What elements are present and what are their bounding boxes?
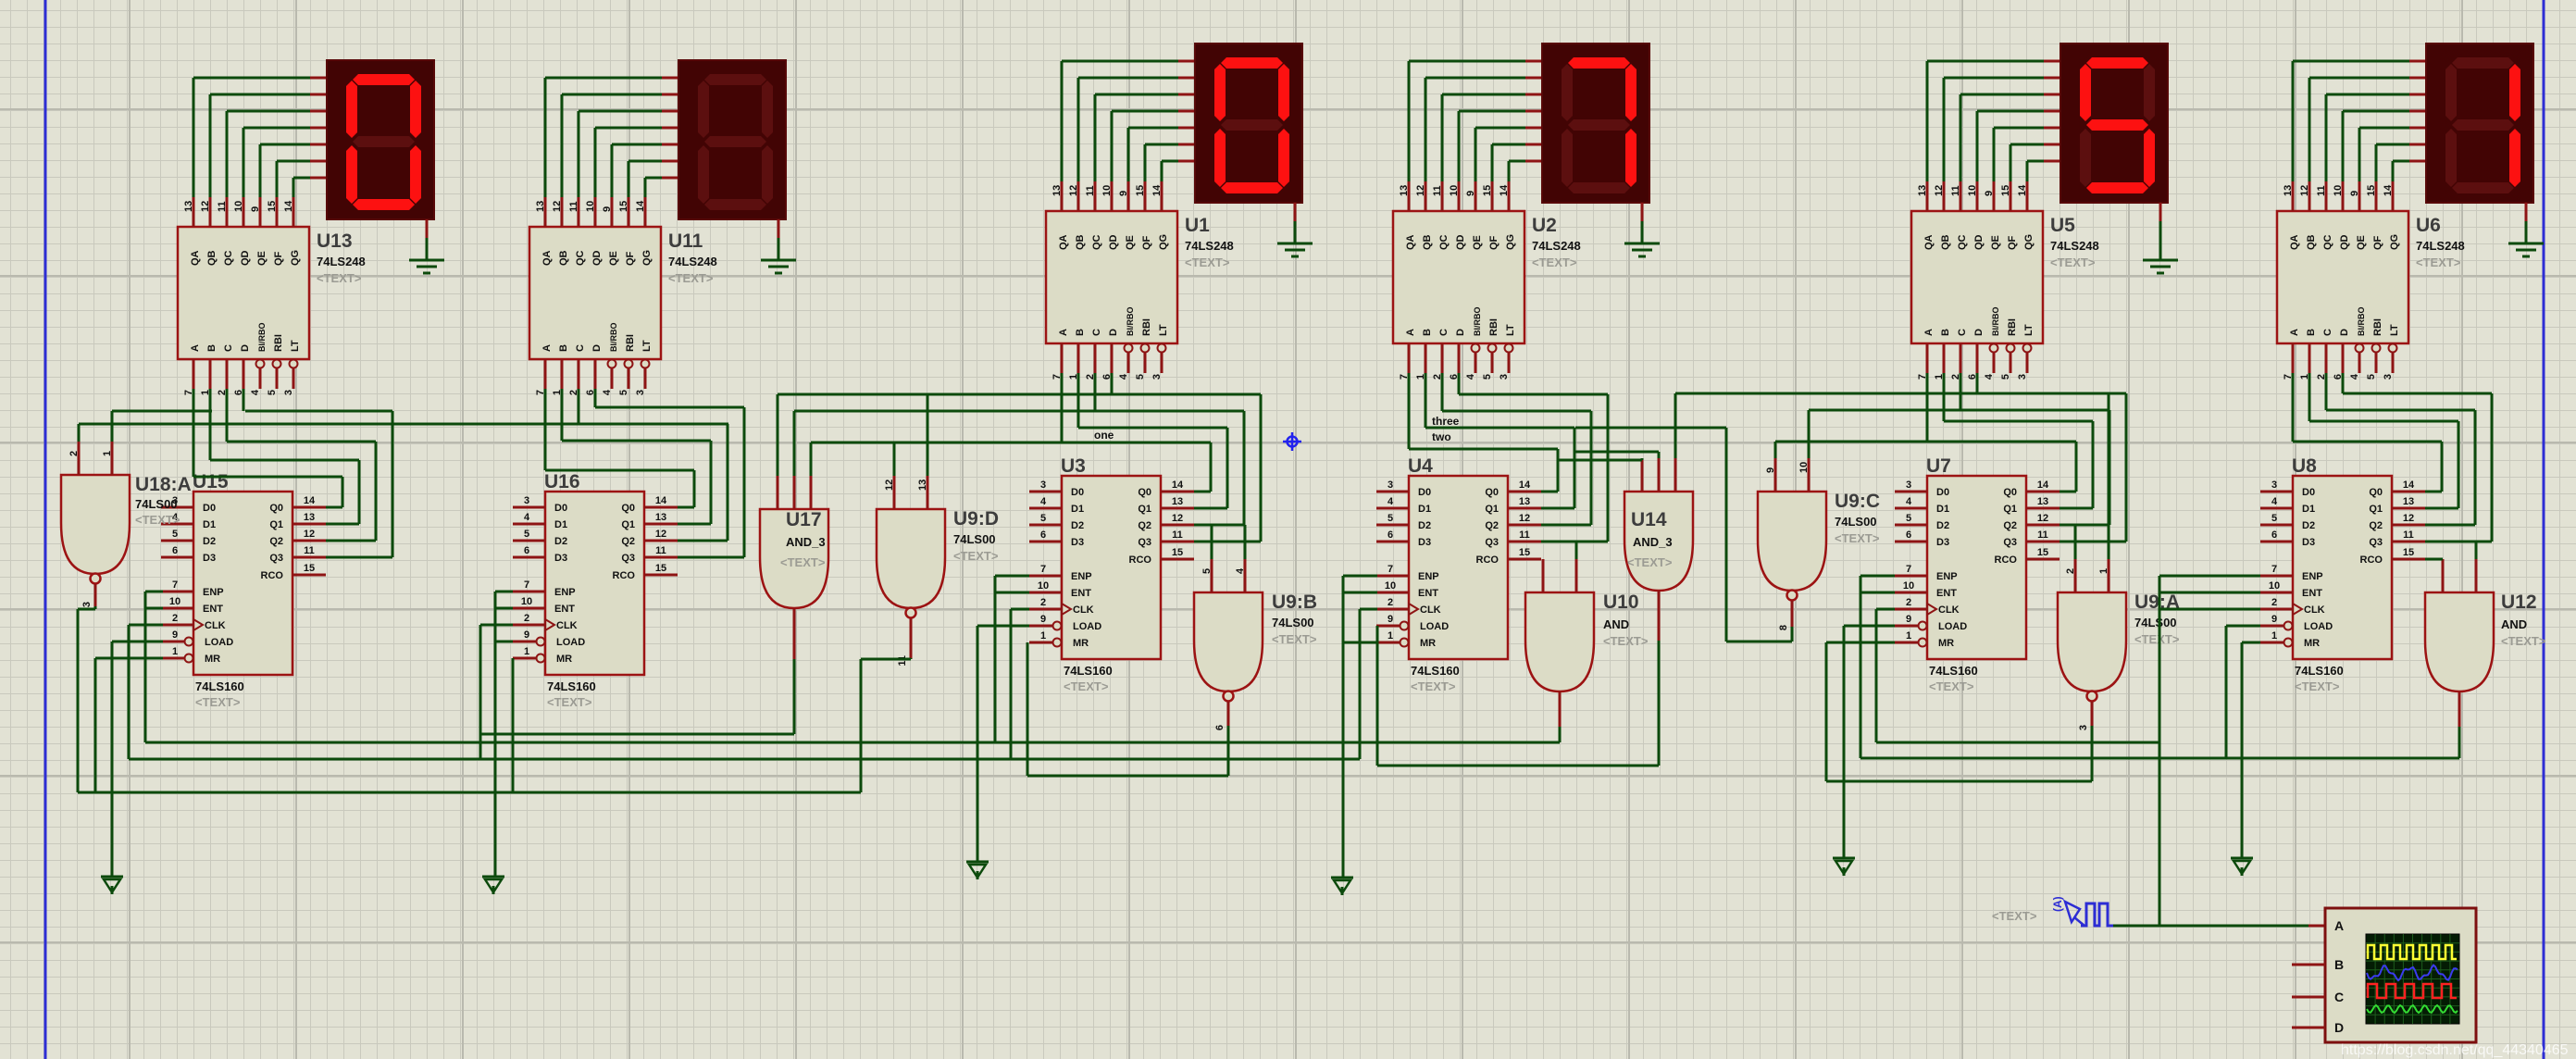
svg-text:D: D (2339, 329, 2350, 336)
svg-text:6: 6 (2271, 529, 2277, 541)
svg-text:D3: D3 (554, 553, 567, 564)
svg-text:7: 7 (1388, 564, 1393, 575)
svg-text:AND_3: AND_3 (786, 535, 826, 549)
wire MR column E to U9:A output (1826, 642, 2092, 781)
svg-text:7: 7 (2271, 564, 2277, 575)
svg-text:A: A (2334, 918, 2344, 933)
svg-text:QB: QB (2306, 234, 2317, 250)
svg-text:3: 3 (2017, 374, 2028, 380)
svg-text:MR: MR (2304, 638, 2320, 649)
7-segment display DISP-U5 (2060, 44, 2168, 203)
bus 802 west (ENP/ENT) (145, 741, 1560, 744)
svg-text:QA: QA (541, 250, 553, 266)
U9:A output pin 3 (2078, 702, 2092, 730)
wire MR column C to U9:B output (1027, 642, 1228, 776)
svg-text:C: C (1091, 329, 1102, 336)
svg-text:ENP: ENP (554, 587, 576, 598)
svg-text:2: 2 (1906, 597, 1911, 608)
svg-text:2: 2 (2065, 568, 2076, 574)
svg-text:QG: QG (2023, 234, 2035, 250)
svg-text:1: 1 (102, 451, 113, 456)
ground arrow (1331, 878, 1353, 895)
svg-text:<TEXT>: <TEXT> (1064, 679, 1109, 693)
svg-text:14: 14 (2403, 480, 2415, 491)
svg-text:RBI: RBI (2372, 318, 2383, 336)
svg-text:10: 10 (1798, 462, 1810, 473)
svg-text:QA: QA (1923, 234, 1935, 250)
bus 802 east (1876, 741, 2159, 744)
svg-text:D3: D3 (2302, 537, 2315, 548)
svg-text:13: 13 (535, 201, 546, 212)
wire U14 input links (1559, 393, 1675, 460)
svg-text:U7: U7 (1926, 455, 1951, 477)
svg-text:https://blog.csdn.net/qq_44340: https://blog.csdn.net/qq_44340465 (2341, 1042, 2569, 1058)
svg-text:D0: D0 (1936, 487, 1949, 498)
svg-text:CLK: CLK (205, 620, 226, 631)
svg-text:QD: QD (240, 250, 251, 266)
svg-text:5: 5 (1482, 374, 1493, 380)
wire LOAD column C to arrow (977, 626, 1029, 862)
svg-text:U15: U15 (193, 471, 229, 492)
svg-text:2: 2 (172, 613, 178, 624)
svg-text:12: 12 (200, 201, 211, 212)
svg-text:1: 1 (1906, 630, 1911, 642)
svg-text:13: 13 (1172, 496, 1183, 507)
svg-text:D3: D3 (1071, 537, 1084, 548)
svg-text:U8: U8 (2292, 455, 2317, 477)
svg-text:<TEXT>: <TEXT> (953, 549, 999, 563)
wire ENP/ENT column E (1860, 576, 1895, 758)
ground (761, 219, 796, 273)
svg-text:74LS00: 74LS00 (2134, 616, 2177, 629)
svg-text:C: C (2322, 329, 2333, 336)
svg-text:QD: QD (591, 250, 603, 266)
svg-text:B: B (2334, 957, 2344, 972)
wire U18:A input links (79, 411, 728, 442)
gate U18:A (NAND) (61, 442, 192, 584)
svg-text:QB: QB (1075, 234, 1086, 250)
svg-text:74LS160: 74LS160 (1411, 664, 1460, 678)
svg-text:ENP: ENP (203, 587, 224, 598)
svg-text:Q2: Q2 (621, 536, 635, 547)
7-segment display DISP-U1 (1195, 44, 1302, 203)
74LS160 counter U16 (513, 471, 678, 709)
svg-text:BI/RBO: BI/RBO (257, 323, 267, 353)
svg-text:74LS248: 74LS248 (2050, 239, 2099, 253)
svg-text:QD: QD (1455, 234, 1466, 250)
7-segment display DISP-U13 (327, 60, 434, 219)
ground arrow (482, 877, 504, 894)
svg-text:QA: QA (1058, 234, 1069, 250)
svg-text:D3: D3 (1936, 537, 1949, 548)
gate U12 (AND) (2425, 559, 2546, 691)
svg-text:BI/RBO: BI/RBO (1991, 307, 2000, 337)
svg-text:QE: QE (2356, 235, 2367, 250)
wire U10 output to bus (1559, 727, 1562, 742)
svg-text:LOAD: LOAD (1938, 621, 1967, 632)
wire U9:D input links (894, 394, 927, 476)
svg-text:15: 15 (304, 563, 315, 574)
svg-text:74LS248: 74LS248 (2416, 239, 2465, 253)
svg-text:RBI: RBI (625, 334, 636, 352)
svg-text:U6: U6 (2416, 215, 2441, 236)
gate U9:C (NAND) (1758, 458, 1880, 601)
svg-text:Q2: Q2 (1138, 520, 1151, 531)
svg-text:Q2: Q2 (1485, 520, 1499, 531)
svg-text:RCO: RCO (613, 570, 636, 581)
svg-text:AND: AND (1603, 617, 1629, 631)
svg-text:11: 11 (2403, 529, 2414, 541)
svg-text:12: 12 (1415, 185, 1426, 196)
svg-text:<TEXT>: <TEXT> (1627, 555, 1673, 569)
svg-text:AND: AND (2501, 617, 2527, 631)
svg-text:MR: MR (1420, 638, 1436, 649)
svg-text:D: D (240, 344, 251, 352)
svg-text:Q1: Q1 (1138, 504, 1151, 515)
svg-text:3: 3 (1388, 480, 1393, 491)
svg-text:5: 5 (172, 529, 178, 540)
svg-text:RBI: RBI (1141, 318, 1152, 336)
svg-text:D1: D1 (2302, 504, 2315, 515)
7-segment display DISP-U6 (2426, 44, 2533, 203)
svg-text:B: B (206, 344, 218, 352)
svg-text:74LS00: 74LS00 (135, 497, 178, 511)
svg-text:13: 13 (2037, 496, 2048, 507)
svg-text:BI/RBO: BI/RBO (1126, 307, 1135, 337)
svg-text:15: 15 (267, 201, 278, 212)
U9:B output pin 6 (1214, 702, 1228, 730)
svg-text:74LS00: 74LS00 (1835, 515, 1877, 529)
svg-text:Q3: Q3 (2003, 537, 2017, 548)
svg-text:QC: QC (223, 250, 234, 266)
svg-text:7: 7 (524, 579, 529, 591)
svg-text:U17: U17 (786, 509, 822, 530)
svg-text:8: 8 (1778, 625, 1789, 630)
wires U13 A-D to U15 Q0-Q3 loops (193, 389, 392, 557)
svg-text:9: 9 (1388, 614, 1393, 625)
svg-text:D2: D2 (2302, 520, 2315, 531)
wire LOAD column D to U14 output (1377, 626, 1659, 766)
svg-text:ENT: ENT (1936, 588, 1957, 599)
ground (409, 219, 444, 273)
svg-text:D2: D2 (203, 536, 216, 547)
svg-text:QF: QF (2372, 235, 2383, 250)
svg-text:4: 4 (1388, 496, 1394, 507)
svg-text:3: 3 (2078, 725, 2089, 730)
svg-text:12: 12 (2037, 513, 2048, 524)
U18:A output pin 3 (81, 584, 95, 607)
svg-text:2: 2 (1040, 597, 1046, 608)
svg-text:<TEXT>: <TEXT> (1603, 634, 1649, 648)
svg-text:7: 7 (172, 579, 178, 591)
svg-text:12: 12 (884, 480, 895, 491)
wires U6 A-D to U8 Q0-Q3 loops (2293, 373, 2492, 542)
svg-text:QA: QA (2289, 234, 2300, 250)
svg-text:QF: QF (1141, 235, 1152, 250)
svg-text:14: 14 (2017, 184, 2028, 196)
svg-text:BI/RBO: BI/RBO (609, 323, 618, 353)
svg-text:4: 4 (1906, 496, 1912, 507)
svg-text:15: 15 (2403, 547, 2414, 558)
svg-text:10: 10 (521, 596, 532, 607)
svg-text:4: 4 (1235, 567, 1246, 574)
svg-text:74LS160: 74LS160 (1064, 664, 1113, 678)
wire U9:B input links (1212, 525, 1245, 559)
svg-text:Q3: Q3 (1485, 537, 1499, 548)
svg-text:3: 3 (1040, 480, 1046, 491)
svg-text:LT: LT (1505, 324, 1516, 336)
svg-text:14: 14 (1151, 184, 1163, 196)
svg-text:<TEXT>: <TEXT> (1929, 679, 1974, 693)
wire U9:D output routing (861, 658, 911, 792)
svg-text:CLK: CLK (556, 620, 578, 631)
74LS248 decoder U11 (529, 197, 717, 395)
svg-text:ENT: ENT (1071, 588, 1091, 599)
7-segment display DISP-U11 (678, 60, 786, 219)
wire CLK column A (129, 625, 163, 759)
U9:C output pin 8 (1778, 601, 1792, 630)
origin marker (1283, 432, 1301, 451)
svg-text:15: 15 (2037, 547, 2048, 558)
74LS160 counter U15 (161, 471, 326, 709)
svg-text:9: 9 (524, 629, 529, 641)
svg-text:5: 5 (2271, 513, 2277, 524)
svg-text:LOAD: LOAD (205, 637, 233, 648)
svg-text:QC: QC (1438, 234, 1450, 250)
svg-text:12: 12 (552, 201, 563, 212)
svg-text:15: 15 (1519, 547, 1530, 558)
svg-text:A: A (190, 344, 201, 352)
svg-text:U11: U11 (668, 230, 703, 252)
svg-text:12: 12 (1172, 513, 1183, 524)
wire CLK column B (480, 625, 513, 759)
svg-text:QF: QF (625, 251, 636, 266)
gate U10 (AND) (1525, 559, 1649, 691)
svg-text:9: 9 (172, 629, 178, 641)
svg-text:C: C (1957, 329, 1968, 336)
svg-text:ENP: ENP (2302, 571, 2323, 582)
svg-text:3: 3 (1499, 374, 1510, 380)
svg-text:11: 11 (1172, 529, 1183, 541)
wires 248 U11 to display (545, 78, 678, 197)
svg-text:LOAD: LOAD (1073, 621, 1101, 632)
wire CLK column E (1876, 609, 1895, 742)
74LS160 counter U3 (1029, 455, 1194, 693)
svg-text:QB: QB (558, 250, 569, 266)
svg-text:1: 1 (524, 646, 529, 657)
svg-text:4: 4 (1118, 373, 1129, 380)
svg-text:<TEXT>: <TEXT> (2295, 679, 2340, 693)
svg-text:10: 10 (1903, 580, 1914, 592)
svg-text:14: 14 (2037, 480, 2049, 491)
ground (2508, 203, 2544, 256)
svg-text:4: 4 (602, 389, 613, 395)
U14 output pin (1658, 591, 1661, 641)
svg-text:QE: QE (1990, 235, 2001, 250)
svg-text:Q0: Q0 (2003, 487, 2017, 498)
svg-text:RBI: RBI (1488, 318, 1500, 336)
svg-text:RCO: RCO (1476, 554, 1500, 566)
svg-text:13: 13 (183, 201, 194, 212)
svg-text:15: 15 (2000, 185, 2011, 196)
wire U9:C output to three-net (1575, 428, 1792, 642)
svg-text:ENT: ENT (554, 604, 575, 615)
svg-text:14: 14 (1519, 480, 1531, 491)
svg-text:9: 9 (1906, 614, 1911, 625)
svg-text:QD: QD (1108, 234, 1119, 250)
svg-text:74LS160: 74LS160 (195, 679, 244, 693)
svg-text:5: 5 (618, 390, 629, 395)
svg-text:14: 14 (283, 200, 294, 212)
U17 output pin (793, 608, 796, 659)
wires U1 A-D to U3 Q0-Q3 loops (811, 373, 1261, 542)
svg-text:RBI: RBI (2007, 318, 2018, 336)
svg-text:5: 5 (2000, 374, 2011, 380)
svg-text:U10: U10 (1603, 592, 1639, 613)
svg-text:D0: D0 (554, 503, 567, 514)
svg-text:CLK: CLK (1420, 604, 1441, 616)
svg-text:13: 13 (304, 512, 315, 523)
svg-text:ENP: ENP (1418, 571, 1439, 582)
svg-text:QB: QB (1422, 234, 1433, 250)
svg-text:Q1: Q1 (2369, 504, 2383, 515)
svg-text:ENP: ENP (1071, 571, 1092, 582)
svg-text:Q0: Q0 (269, 503, 283, 514)
svg-text:LOAD: LOAD (2304, 621, 2333, 632)
svg-text:Q3: Q3 (621, 553, 635, 564)
svg-text:4: 4 (2271, 496, 2278, 507)
svg-text:1: 1 (172, 646, 178, 657)
svg-text:10: 10 (1101, 185, 1113, 196)
U12 output pin (2458, 691, 2461, 727)
svg-text:10: 10 (169, 596, 180, 607)
bus 819 east (ENP/ENT-E to U12 output) (1860, 727, 2459, 758)
svg-text:13: 13 (1519, 496, 1530, 507)
wire clock to oscilloscope input A (2113, 925, 2325, 928)
svg-text:QC: QC (575, 250, 586, 266)
svg-text:2: 2 (1388, 597, 1393, 608)
svg-text:11: 11 (2316, 185, 2327, 196)
74LS248 decoder U6 (2277, 181, 2465, 380)
svg-text:B: B (1075, 329, 1086, 336)
svg-text:LT: LT (290, 340, 301, 352)
svg-text:3: 3 (1906, 480, 1911, 491)
wires 248 U2 to display (1409, 61, 1542, 181)
svg-text:13: 13 (655, 512, 666, 523)
svg-text:74LS248: 74LS248 (1532, 239, 1581, 253)
ground (2143, 203, 2178, 273)
bus Y3 (MR net) (78, 791, 861, 794)
svg-text:D: D (1455, 329, 1466, 336)
svg-text:QA: QA (1405, 234, 1416, 250)
wire U17 input links (778, 394, 1261, 476)
svg-text:6: 6 (1040, 529, 1046, 541)
74LS248 decoder U2 (1393, 181, 1581, 380)
svg-text:B: B (2306, 329, 2317, 336)
svg-text:RCO: RCO (1129, 554, 1152, 566)
wires U2 A-D to U4 Q0-Q3 loops (1409, 373, 1608, 542)
wire ENP/ENT net column A (145, 592, 163, 742)
svg-text:3: 3 (81, 602, 93, 607)
svg-text:14: 14 (635, 200, 646, 212)
svg-text:BI/RBO: BI/RBO (2357, 307, 2366, 337)
svg-text:7: 7 (1040, 564, 1046, 575)
svg-text:3: 3 (635, 390, 646, 395)
svg-text:11: 11 (1432, 185, 1443, 196)
svg-text:A: A (1923, 329, 1935, 336)
clock generator (A) (1992, 896, 2113, 926)
svg-text:QD: QD (1973, 234, 1985, 250)
svg-text:RCO: RCO (2360, 554, 2383, 566)
svg-text:14: 14 (2383, 184, 2394, 196)
svg-text:U14: U14 (1631, 509, 1667, 530)
svg-text:74LS160: 74LS160 (547, 679, 596, 693)
svg-text:2: 2 (68, 451, 80, 456)
svg-text:5: 5 (1040, 513, 1046, 524)
svg-text:10: 10 (2333, 185, 2344, 196)
gate U17 (AND) (760, 476, 828, 608)
svg-text:74LS248: 74LS248 (317, 255, 366, 268)
svg-text:13: 13 (2403, 496, 2414, 507)
svg-text:D3: D3 (203, 553, 216, 564)
svg-text:Q0: Q0 (1138, 487, 1151, 498)
svg-text:LT: LT (2389, 324, 2400, 336)
svg-text:13: 13 (917, 480, 928, 491)
svg-text:4: 4 (524, 512, 530, 523)
svg-text:CLK: CLK (1938, 604, 1960, 616)
74LS160 counter U8 (2260, 455, 2425, 693)
gate U9:A (NAND) (2058, 559, 2180, 702)
svg-text:D1: D1 (1936, 504, 1949, 515)
wire ENP/ENT/MR column D to arrow (1343, 576, 1377, 878)
svg-text:15: 15 (1482, 185, 1493, 196)
wires 248 U6 to display (2293, 61, 2426, 181)
wire MR column F to arrow (2242, 642, 2260, 858)
svg-text:6: 6 (524, 545, 529, 556)
svg-text:4: 4 (1465, 373, 1476, 380)
wires U5 A-D to U7 Q0-Q3 loops (1675, 373, 2126, 542)
svg-text:6: 6 (1388, 529, 1393, 541)
svg-text:11: 11 (1085, 185, 1096, 196)
svg-text:U16: U16 (544, 471, 580, 492)
74LS248 decoder U13 (178, 197, 366, 395)
svg-text:LOAD: LOAD (1420, 621, 1449, 632)
svg-text:<TEXT>: <TEXT> (1835, 531, 1880, 545)
svg-text:QG: QG (641, 250, 653, 266)
svg-text:QG: QG (2389, 234, 2400, 250)
svg-text:QG: QG (1158, 234, 1169, 250)
svg-text:4: 4 (1984, 373, 1995, 380)
wire MR column B (512, 658, 515, 792)
svg-text:CLK: CLK (2304, 604, 2325, 616)
svg-text:1: 1 (2271, 630, 2277, 642)
svg-text:15: 15 (1135, 185, 1146, 196)
svg-text:4: 4 (250, 389, 261, 395)
svg-text:<TEXT>: <TEXT> (1411, 679, 1456, 693)
svg-text:<TEXT>: <TEXT> (135, 513, 180, 527)
svg-text:D2: D2 (1936, 520, 1949, 531)
svg-text:3: 3 (2383, 374, 2394, 380)
svg-text:1: 1 (2098, 568, 2109, 574)
svg-text:9: 9 (1465, 191, 1476, 196)
svg-text:D2: D2 (554, 536, 567, 547)
svg-text:10: 10 (233, 201, 244, 212)
svg-text:U1: U1 (1185, 215, 1210, 236)
svg-text:6: 6 (1906, 529, 1911, 541)
svg-text:10: 10 (2269, 580, 2280, 592)
wire MR column A / U18:A output net (78, 606, 163, 792)
svg-text:5: 5 (1906, 513, 1911, 524)
